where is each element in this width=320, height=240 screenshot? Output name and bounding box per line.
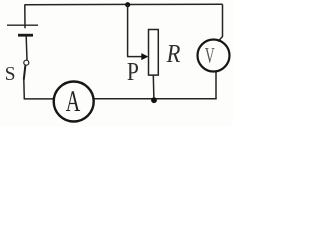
label A [66, 91, 80, 111]
label S [6, 67, 14, 80]
wire: right vertical upper (to voltmeter top) [218, 4, 223, 41]
battery B1 [7, 25, 38, 35]
label R [167, 45, 180, 62]
switch S [24, 60, 29, 79]
voltmeter V1 [198, 40, 230, 72]
ammeter A1 [54, 82, 94, 122]
wire: bottom horizontal (ammeter right to bottom-right corner) [94, 98, 217, 100]
junction dot (resistor bottom on bottom wire) [151, 97, 157, 103]
wire: bottom horizontal (left corner to ammeter) [24, 98, 54, 100]
wire: resistor bottom to bottom wire [152, 75, 155, 99]
wire: top horizontal [25, 3, 223, 6]
wire: battery bottom to switch [25, 37, 28, 61]
wire: switch to bottom-left corner [23, 79, 26, 99]
wire: left vertical (battery top to top wire corner) [24, 5, 26, 29]
label P [127, 63, 137, 80]
potentiometer R (resistor body) [149, 30, 159, 76]
wire: right vertical lower (voltmeter bottom to bottom wire) [215, 71, 217, 99]
junction dot (wiper tap on top wire) [125, 2, 130, 7]
label V [205, 48, 215, 63]
wire: wiper vertical drop [127, 5, 129, 57]
wiper P (arrow into potentiometer) [127, 53, 148, 60]
